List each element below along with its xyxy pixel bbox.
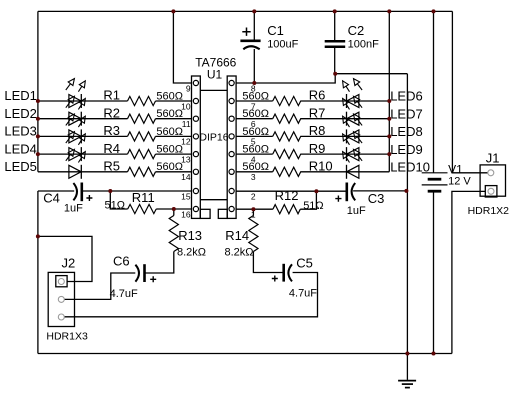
svg-text:LED1: LED1 — [4, 88, 37, 103]
LED LED9 — [343, 132, 363, 161]
wire bottom ground rail — [38, 353, 452, 355]
polarity + C1 — [242, 28, 250, 36]
wire ground net vertical — [406, 74, 408, 354]
LED LED4 — [66, 132, 86, 161]
wire pin9 to +12V rail — [173, 11, 191, 83]
LED LED8 — [343, 114, 363, 143]
wire R5 to pin 14 — [156, 171, 192, 173]
wire C1 bottom lead — [253, 49, 255, 83]
svg-text:560Ω: 560Ω — [242, 108, 269, 120]
capacitor C1 100uF — [240, 41, 260, 50]
svg-text:560Ω: 560Ω — [156, 161, 183, 173]
svg-text:560Ω: 560Ω — [242, 90, 269, 102]
junction left rail / LED3 row — [36, 134, 40, 138]
resistor R7 560&#937; — [273, 114, 301, 123]
connector J1 HDR1X2 — [480, 165, 505, 197]
resistor R10 560&#937; — [273, 167, 301, 176]
wire left LED anode rail — [37, 11, 39, 171]
svg-text:560Ω: 560Ω — [156, 144, 183, 156]
svg-text:LED5: LED5 — [4, 159, 37, 174]
junction left rail / LED4 row — [36, 152, 40, 156]
svg-text:560Ω: 560Ω — [156, 126, 183, 138]
svg-text:J2: J2 — [62, 255, 76, 270]
svg-text:C5: C5 — [296, 256, 313, 271]
junction node C (pin2/C3/R12) — [314, 189, 318, 193]
svg-text:560Ω: 560Ω — [156, 108, 183, 120]
svg-text:560Ω: 560Ω — [242, 161, 269, 173]
wire R8 row to right LED rail — [300, 135, 389, 137]
wire R4 to pin 13 — [156, 153, 192, 155]
svg-text:1uF: 1uF — [64, 203, 83, 215]
svg-text:R8: R8 — [309, 123, 326, 138]
resistor R1 560&#937; — [128, 96, 156, 105]
svg-text:51Ω: 51Ω — [303, 200, 323, 212]
polarity + C4 — [86, 195, 92, 201]
svg-text:LED2: LED2 — [4, 106, 37, 121]
junction node B (pin16/R11/R13) — [172, 207, 176, 211]
junction left rail / LED2 row — [36, 117, 40, 121]
svg-text:9: 9 — [186, 83, 191, 93]
wire right supply rail lower (J1 pin2 to ground rail) — [452, 191, 486, 353]
wire C3 negative lead to ground net — [353, 190, 407, 192]
LED LED7 — [343, 96, 363, 125]
svg-text:560Ω: 560Ω — [242, 144, 269, 156]
wire R3 to pin 12 — [156, 135, 192, 137]
polarity + C5 — [272, 276, 278, 282]
capacitor C5 4.7uF — [284, 264, 292, 282]
LED LED3 — [66, 114, 86, 143]
svg-text:4.7uF: 4.7uF — [110, 288, 138, 300]
connector J2 HDR1X3 — [48, 272, 74, 326]
wire rail to R5 (LED5 row) — [38, 171, 128, 173]
junction top rail / C1 — [252, 9, 256, 13]
wire node B' to R14 top — [252, 209, 254, 215]
op-amp U1 TA7666 DIP16 body — [192, 76, 237, 218]
capacitor C6 4.7uF — [135, 264, 144, 282]
wire C2 bottom lead — [334, 48, 336, 74]
wire pin 2 to node C — [236, 190, 316, 192]
junction C1 / pin8 wire — [252, 81, 256, 85]
svg-text:15: 15 — [181, 191, 191, 201]
resistor R8 560&#937; — [273, 132, 301, 141]
svg-text:LED4: LED4 — [4, 141, 37, 156]
svg-text:8.2kΩ: 8.2kΩ — [225, 246, 254, 258]
svg-text:C6: C6 — [113, 254, 130, 269]
svg-text:R3: R3 — [103, 123, 120, 138]
wire R1 to pin 10 — [156, 100, 192, 102]
svg-text:LED3: LED3 — [4, 124, 37, 139]
node A drop to R11 — [110, 191, 127, 209]
svg-text:C3: C3 — [368, 191, 385, 206]
junction right rail / LED6 row — [387, 99, 391, 103]
wire top +12V rail — [38, 10, 453, 12]
resistor R3 560&#937; — [128, 132, 156, 141]
svg-text:C1: C1 — [267, 23, 284, 38]
ground — [398, 354, 416, 388]
wire pin 7 to R6 — [236, 100, 273, 102]
wire rail to R3 (LED3 row) — [38, 135, 128, 137]
wire J1 pin1 from supply rail — [452, 172, 488, 174]
junction node A (pin15/C4/R11) — [108, 189, 112, 193]
resistor R2 560&#937; — [128, 114, 156, 123]
junction C2 / ground net — [333, 72, 337, 76]
LED LED1 — [66, 79, 86, 108]
node C drop to R12 — [300, 191, 316, 209]
junction ground rail / ground symbol — [405, 352, 409, 356]
junction J2 pin1 / ground branch — [36, 234, 40, 238]
wire C3 plus lead — [316, 190, 346, 192]
wire pin 1 to node B' to R12 — [236, 208, 273, 210]
svg-text:R10: R10 — [309, 159, 333, 174]
junction top rail / battery V1 — [432, 9, 436, 13]
wire C6 to J2 pin2 — [64, 273, 135, 299]
svg-text:2: 2 — [251, 191, 256, 201]
svg-text:1uF: 1uF — [347, 205, 366, 217]
svg-text:12 V: 12 V — [448, 176, 471, 188]
wire battery V1 negative lead — [433, 191, 435, 353]
svg-text:J1: J1 — [486, 151, 500, 166]
svg-text:LED8: LED8 — [390, 124, 423, 139]
resistor R14 8.2k&#937; — [249, 216, 258, 252]
resistor R5 560&#937; — [128, 167, 156, 176]
svg-text:51Ω: 51Ω — [105, 200, 125, 212]
junction right rail / LED7 row — [387, 117, 391, 121]
wire C4 to node A to pin 15 — [82, 190, 192, 192]
svg-text:11: 11 — [182, 119, 191, 129]
svg-text:R4: R4 — [103, 141, 120, 156]
svg-text:R5: R5 — [103, 159, 120, 174]
svg-text:HDR1X2: HDR1X2 — [468, 205, 510, 217]
svg-text:R6: R6 — [309, 88, 326, 103]
svg-text:100uF: 100uF — [267, 38, 298, 50]
wire node B to R13 top — [173, 209, 175, 216]
LED LED6 — [343, 79, 363, 108]
wire pin8 to ground net — [236, 74, 407, 83]
svg-text:V1: V1 — [448, 163, 463, 177]
wire pin 4 to R9 — [236, 153, 273, 155]
svg-text:R13: R13 — [178, 228, 202, 243]
LED LED10 — [343, 149, 363, 178]
LED LED2 — [66, 96, 86, 125]
wire rail to R1 (LED1 row) — [38, 100, 128, 102]
svg-text:4.7uF: 4.7uF — [289, 287, 317, 299]
wire R6 row to right LED rail — [300, 100, 389, 102]
resistor R12 51&#937; — [273, 205, 300, 214]
junction ground rail / battery V1 — [432, 352, 436, 356]
junction top rail / right LED rail — [387, 9, 391, 13]
wire R2 to pin 11 — [156, 118, 192, 120]
wire right LED anode rail — [388, 11, 390, 171]
wire J2 pin1 to ground — [38, 236, 92, 281]
battery V1 12V — [422, 173, 448, 191]
capacitor C2 100nF — [325, 41, 346, 47]
wire R9 row to right LED rail — [300, 153, 389, 155]
svg-text:R14: R14 — [225, 228, 249, 243]
wire R13 bottom to C6 — [145, 252, 174, 274]
junction node B' (pin1/R12/R14) — [251, 207, 255, 211]
resistor R6 560&#937; — [273, 96, 301, 105]
svg-text:U1: U1 — [207, 68, 223, 82]
polarity + C3 — [335, 196, 341, 202]
wire C4 negative lead to ground rail — [37, 191, 39, 354]
junction right rail / LED9 row — [387, 152, 391, 156]
resistor R13 8.2k&#937; — [169, 216, 178, 252]
junction top rail / pin9 riser — [171, 9, 175, 13]
svg-text:560Ω: 560Ω — [156, 90, 183, 102]
svg-text:HDR1X3: HDR1X3 — [46, 331, 88, 343]
LED LED5 — [66, 149, 86, 178]
svg-text:R11: R11 — [132, 190, 155, 205]
wire C2 top lead — [334, 11, 336, 40]
svg-text:8.2kΩ: 8.2kΩ — [177, 246, 206, 258]
svg-text:16: 16 — [181, 209, 191, 219]
wire C5 to J2 pin3 — [64, 273, 317, 317]
svg-text:LED6: LED6 — [390, 89, 423, 104]
capacitor C4 1uF — [73, 183, 81, 202]
wire R7 row to right LED rail — [300, 118, 389, 120]
junction C3 / ground net — [404, 189, 408, 193]
junction right rail / LED8 row — [387, 134, 391, 138]
resistor R9 560&#937; — [273, 150, 301, 159]
wire R11 to node B to pin 16 — [156, 208, 191, 210]
wire C4 left lead — [38, 190, 74, 192]
wire R14 bottom to C5 — [253, 252, 282, 273]
resistor R4 560&#937; — [128, 150, 156, 159]
svg-text:R9: R9 — [309, 141, 326, 156]
wire C1 top lead — [253, 11, 255, 40]
svg-text:LED7: LED7 — [390, 106, 423, 121]
svg-text:DIP16: DIP16 — [199, 131, 228, 143]
wire pin 5 to R8 — [236, 135, 273, 137]
wire right supply rail upper — [451, 11, 453, 172]
wire battery V1 positive lead — [433, 11, 435, 172]
svg-text:R1: R1 — [103, 88, 120, 103]
svg-text:C4: C4 — [43, 190, 60, 205]
capacitor C3 1uF — [347, 183, 355, 202]
svg-text:R2: R2 — [103, 105, 120, 120]
junction top rail / C2 — [333, 9, 337, 13]
wire rail to R2 (LED2 row) — [38, 118, 128, 120]
svg-text:C2: C2 — [348, 23, 365, 38]
resistor R11 51&#937; — [128, 204, 157, 213]
wire pin 3 to R10 — [236, 171, 273, 173]
polarity + C6 — [150, 276, 156, 282]
junction left rail / LED1 row — [36, 99, 40, 103]
svg-text:3: 3 — [251, 172, 256, 182]
svg-text:560Ω: 560Ω — [242, 126, 269, 138]
svg-text:R7: R7 — [309, 105, 326, 120]
svg-text:14: 14 — [181, 172, 191, 182]
svg-text:LED9: LED9 — [390, 142, 423, 157]
svg-text:100nF: 100nF — [348, 38, 379, 50]
wire rail to R4 (LED4 row) — [38, 153, 128, 155]
wire R10 row to right LED rail — [300, 171, 389, 173]
wire pin 6 to R7 — [236, 118, 273, 120]
svg-text:R12: R12 — [275, 188, 299, 203]
